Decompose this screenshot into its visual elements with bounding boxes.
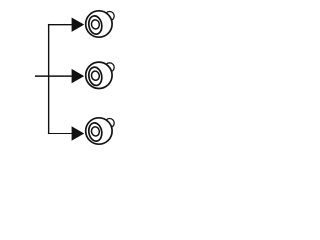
wire: top branch [48, 24, 72, 26]
speaker 1 cone ring [87, 15, 103, 35]
arrowhead to speaker 3 [72, 126, 85, 140]
wire: bottom branch [48, 133, 72, 135]
arrowhead to speaker 2 [72, 69, 85, 83]
arrowhead to speaker 1 [72, 17, 85, 31]
speaker 3 cone ring [87, 122, 103, 142]
speaker 3 body [86, 118, 112, 144]
speaker 1 magnet nub [105, 12, 114, 21]
wire: vertical bus [48, 24, 50, 134]
speaker 3 dust cap [91, 126, 100, 136]
speaker 3 magnet nub [105, 119, 114, 128]
speaker 2 dust cap [91, 70, 100, 80]
speaker 2 cone ring [87, 66, 103, 86]
wire: input stub and middle branch [35, 75, 72, 77]
speaker 1 dust cap [91, 19, 100, 29]
speaker 1 body [86, 11, 112, 37]
speaker 2 magnet nub [105, 63, 114, 72]
speaker 2 body [86, 62, 112, 88]
